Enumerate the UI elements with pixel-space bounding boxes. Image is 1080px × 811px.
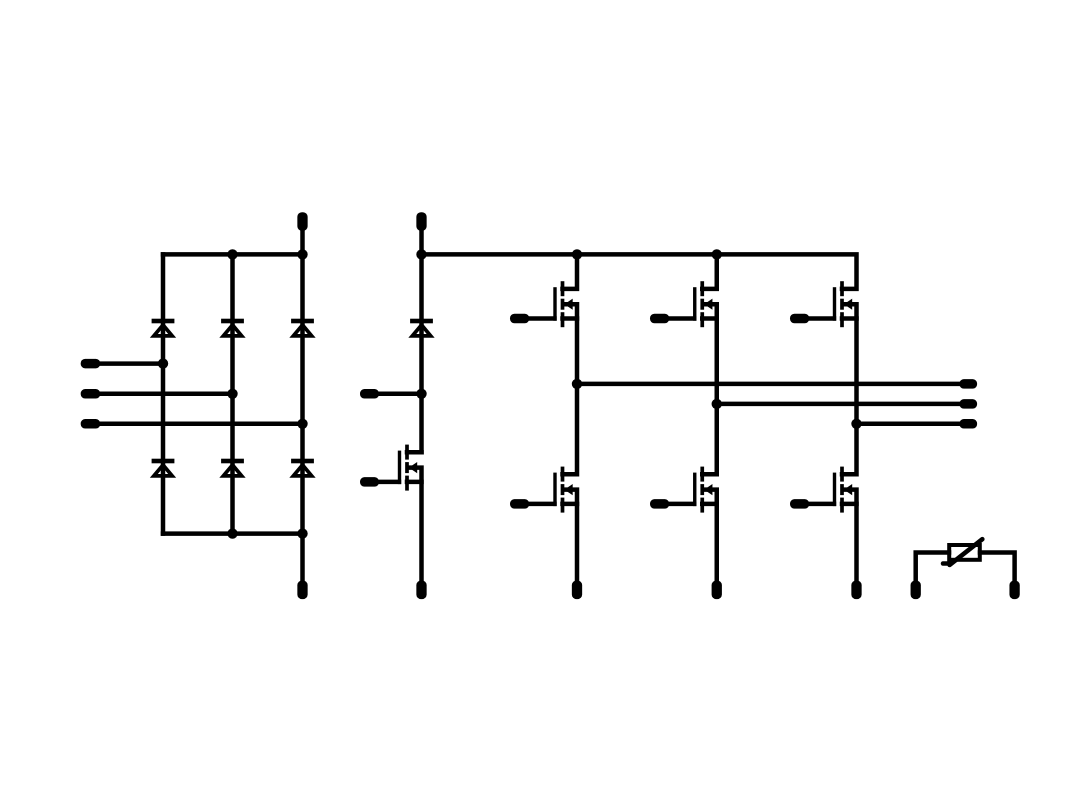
wire: AC input L1 to branch 1 — [99, 361, 163, 366]
pin: motor phase V terminal — [959, 399, 977, 409]
wire: chopper MOSFET body/source vertical to bottom terminal — [409, 468, 422, 582]
wire: varistor left lead — [916, 553, 949, 582]
junction: leg3 midpoint / phase W — [851, 419, 861, 429]
transistor Q5 (inverter leg3 high-side N-MOSFET) — [790, 281, 857, 327]
transistor Q1 (inverter leg1 high-side N-MOSFET) — [510, 281, 577, 327]
wire: leg 3 midpoint vertical (top source to bottom drain) — [842, 304, 857, 474]
pin: chopper DC- terminal (bottom) — [416, 581, 426, 600]
pin: varistor right terminal — [1009, 581, 1019, 600]
junction: L1/branch1 — [158, 358, 168, 368]
pin: leg 3 source terminal (bottom) — [851, 581, 861, 600]
diode D7 (brake chopper freewheel) — [410, 319, 433, 336]
diode D2 (bridge bottom, phase 1) — [152, 459, 175, 476]
diode D3 (bridge top, phase 2) — [221, 319, 244, 336]
transistor Q2 (inverter leg1 low-side N-MOSFET) — [510, 467, 577, 513]
pin: brake resistor terminal — [360, 389, 379, 399]
wire: AC input L3 to branch 3 — [99, 422, 303, 427]
wire: phase W output — [857, 422, 961, 427]
wire: brake resistor terminal to chopper node — [378, 392, 422, 397]
diode D5 (bridge top, phase 3) — [291, 319, 314, 336]
wire: rectifier branch 2 vertical — [230, 254, 235, 533]
wire: leg 1 midpoint vertical (top source to bottom drain) — [563, 304, 578, 474]
junction: branch3/bottom rail — [297, 528, 307, 538]
wire: leg 2 drain from DC+ rail — [702, 254, 717, 289]
pin: varistor left terminal — [911, 581, 921, 600]
wire: phase U output — [577, 382, 961, 387]
wire: AC input L2 to branch 2 — [99, 392, 233, 397]
pin: leg 2 source terminal (bottom) — [712, 581, 722, 600]
pin: AC input terminal L3 — [81, 419, 101, 429]
junction: L3/branch3 — [297, 419, 307, 429]
diode D4 (bridge bottom, phase 2) — [221, 459, 244, 476]
varistor RV1 — [943, 539, 982, 565]
wire: rectifier top rail — [163, 252, 303, 257]
wire: DC+ rail to inverter legs, elbow into Q5 drain — [422, 254, 857, 289]
junction: branch2/top rail — [227, 249, 237, 259]
wire: varistor right lead — [980, 553, 1015, 582]
junction: L2/branch2 — [227, 389, 237, 399]
wire: leg 2 bottom source to terminal — [704, 490, 717, 582]
diode D1 (bridge top, phase 1) — [152, 319, 175, 336]
wire: leg 2 midpoint vertical (top source to bottom drain) — [702, 304, 717, 474]
transistor Q6 (inverter leg3 low-side N-MOSFET) — [790, 467, 857, 513]
wire: leg 3 bottom source to terminal — [844, 490, 857, 582]
wire: phase V output — [717, 402, 961, 407]
wire: rectifier branch 1 vertical — [161, 254, 166, 533]
pin: AC input terminal L1 — [81, 359, 101, 369]
junction: chopper vertical / DC+ rail — [416, 249, 426, 259]
junction: branch3/top rail — [297, 249, 307, 259]
pin: chopper DC+ terminal (top) — [416, 212, 426, 231]
transistor Q7 (brake chopper N-MOSFET) — [360, 445, 422, 491]
pin: motor phase U terminal — [959, 379, 977, 389]
pin: leg 1 source terminal (bottom) — [572, 581, 582, 600]
pin: AC input terminal L2 — [81, 389, 101, 399]
wire: chopper DC+ vertical through diode to MOSFET drain — [419, 230, 424, 453]
pin: rectifier DC+ terminal (top) — [297, 212, 307, 231]
wire: rectifier branch 3 vertical (DC+ top to DC- bottom) — [300, 230, 305, 582]
diode D6 (bridge bottom, phase 3) — [291, 459, 314, 476]
pin: rectifier DC- terminal (bottom) — [297, 581, 307, 600]
wire: chopper MOSFET drain elbow — [407, 450, 422, 455]
junction: leg1 midpoint / phase U — [572, 379, 582, 389]
junction: leg2 midpoint / phase V — [712, 399, 722, 409]
junction: branch2/bottom rail — [227, 528, 237, 538]
transistor Q4 (inverter leg2 low-side N-MOSFET) — [650, 467, 717, 513]
wire: rectifier bottom rail — [163, 531, 303, 536]
wire: leg 1 drain from DC+ rail — [563, 254, 578, 289]
transistor Q3 (inverter leg2 high-side N-MOSFET) — [650, 281, 717, 327]
junction: leg2 / DC+ rail — [712, 249, 722, 259]
junction: leg1 / DC+ rail — [572, 249, 582, 259]
pin: motor phase W terminal — [959, 419, 977, 429]
junction: chopper diode-MOSFET node / brake terminal — [416, 389, 426, 399]
wire: leg 1 bottom source to terminal — [564, 490, 577, 582]
